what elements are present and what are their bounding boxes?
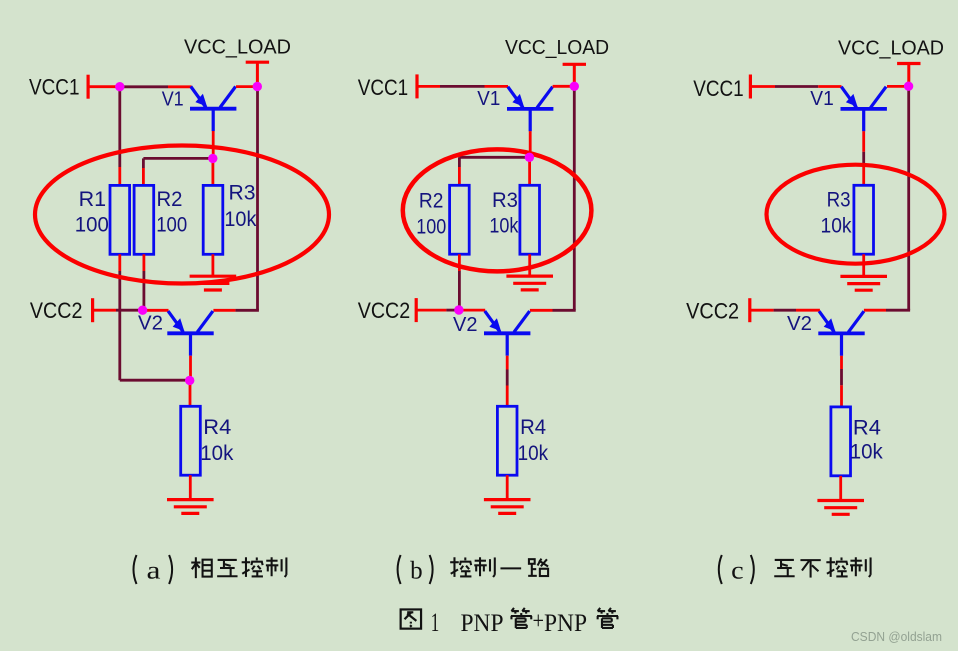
wire VCC1 to V1 (c) bbox=[775, 85, 818, 88]
wire R4 bottom pin (a) bbox=[189, 475, 192, 499]
caption (a) char zhi bbox=[266, 557, 287, 577]
wire V2 to R4 (c) bbox=[840, 369, 843, 385]
wire R4 bottom pin (c) bbox=[839, 476, 842, 501]
wire V2 base pin (c) bbox=[840, 356, 843, 369]
node VCC_LOAD junction (b) bbox=[570, 82, 579, 91]
wire V1 emitter pin (a) bbox=[168, 85, 192, 88]
value 100 of R2 (b) bbox=[416, 216, 446, 239]
figure caption plus sign bbox=[533, 608, 545, 635]
wire V2 base pin (b) bbox=[506, 356, 509, 370]
power tick VCC2 (a) bbox=[91, 298, 94, 322]
wire R2 down to VCC2 (a) bbox=[142, 271, 145, 308]
node VCC2 junction (a) bbox=[138, 306, 147, 315]
wire V2 collector pin (a) bbox=[213, 309, 235, 312]
power tick VCC1 (b) bbox=[415, 74, 418, 98]
svg-text:R4: R4 bbox=[520, 416, 546, 439]
caption (c) open paren bbox=[719, 555, 722, 584]
caption (b) letter b bbox=[410, 558, 423, 585]
wire R4 top pin (c) bbox=[840, 385, 843, 407]
figure caption number 1 bbox=[431, 608, 440, 637]
caption (a) close paren bbox=[169, 555, 172, 584]
wire R3 top pin (a) bbox=[211, 160, 214, 186]
caption (b) char yi bbox=[500, 567, 521, 569]
watermark CSDN @oldslam bbox=[851, 630, 942, 644]
wire R2 top pin (b) bbox=[458, 167, 461, 186]
figure caption char tu bbox=[401, 609, 421, 628]
resistor R2 (b) bbox=[450, 185, 470, 254]
node VCC_LOAD junction (a) bbox=[253, 82, 262, 91]
wire V1 base pin (a) bbox=[212, 131, 215, 155]
wire R3 bottom pin (b) bbox=[528, 254, 531, 276]
caption (b) close paren bbox=[430, 555, 433, 584]
svg-text:100: 100 bbox=[416, 216, 446, 239]
net label VCC1 (a) bbox=[29, 75, 80, 100]
label V2 (a) bbox=[138, 312, 163, 334]
svg-text:VCC1: VCC1 bbox=[29, 75, 80, 100]
power bar VCC_LOAD (b) bbox=[563, 64, 586, 84]
wire right rail (c) bbox=[907, 88, 910, 310]
resistor R4 (b) bbox=[497, 406, 517, 475]
node V2 base junction (a) bbox=[185, 376, 194, 385]
label V2 (b) bbox=[453, 314, 478, 336]
node V1 base junction (a) bbox=[208, 154, 217, 163]
wire R1 bottom pin (a) bbox=[118, 254, 121, 271]
svg-text:R3: R3 bbox=[229, 182, 256, 205]
resistor R2 (a) bbox=[134, 185, 154, 254]
power tick VCC1 (a) bbox=[86, 75, 89, 99]
wire V2 to R4 (b) bbox=[506, 370, 509, 386]
svg-text:VCC1: VCC1 bbox=[693, 76, 744, 101]
wire V1 collector pin (b) bbox=[553, 85, 571, 88]
power bar VCC_LOAD (a) bbox=[246, 62, 269, 84]
label R2 (a) bbox=[157, 188, 183, 211]
svg-text:10k: 10k bbox=[224, 208, 256, 231]
wire VCC2 to node (a) bbox=[116, 309, 140, 312]
wire R4 top pin (b) bbox=[506, 386, 509, 407]
wire down to R2 (b) bbox=[458, 157, 461, 167]
label R3 (c) bbox=[827, 189, 851, 212]
label R4 (b) bbox=[520, 416, 546, 439]
wire R1 to V2 emitter (a) bbox=[120, 379, 188, 382]
wire V2 collector pin (c) bbox=[864, 309, 886, 312]
svg-text:VCC1: VCC1 bbox=[358, 75, 409, 100]
wire right rail (b) bbox=[573, 88, 576, 310]
caption (a) char kong bbox=[242, 557, 263, 577]
power bar VCC_LOAD (c) bbox=[897, 64, 920, 85]
transistor V2 (c) bbox=[818, 311, 864, 356]
svg-text:b: b bbox=[410, 558, 423, 585]
transistor V2 (a) bbox=[167, 311, 213, 356]
wire rail to V2 (a) bbox=[235, 309, 259, 312]
wire R3 top pin (c) bbox=[862, 167, 865, 186]
label V1 (b) bbox=[477, 88, 500, 110]
value 10k of R3 (b) bbox=[489, 215, 518, 238]
caption (c) char kong bbox=[826, 557, 847, 577]
svg-text:R2: R2 bbox=[157, 188, 183, 211]
svg-text:10k: 10k bbox=[489, 215, 518, 238]
caption (a) char xiang bbox=[191, 557, 212, 578]
net label VCC_LOAD (c) bbox=[838, 37, 944, 59]
caption (c) char bu bbox=[800, 560, 820, 577]
svg-text:PNP: PNP bbox=[461, 610, 504, 637]
wire VCC1 pin (c) bbox=[750, 85, 775, 88]
wire VCC2 pin (b) bbox=[416, 309, 446, 312]
net label VCC_LOAD (a) bbox=[184, 37, 291, 59]
net label VCC2 (c) bbox=[686, 299, 739, 324]
transistor V2 (b) bbox=[484, 311, 530, 356]
ground under R3 (a) bbox=[190, 276, 237, 290]
wire V1 collector pin (c) bbox=[887, 85, 905, 88]
value 10k of R4 (a) bbox=[200, 442, 233, 465]
figure caption char guan 1 bbox=[511, 608, 532, 628]
svg-text:10k: 10k bbox=[518, 442, 549, 465]
transistor V1 (b) bbox=[507, 87, 553, 132]
net label VCC2 (b) bbox=[358, 298, 411, 323]
svg-text:CSDN @oldslam: CSDN @oldslam bbox=[851, 630, 942, 644]
wire V2 emitter pin (b) bbox=[462, 309, 486, 312]
svg-text:10k: 10k bbox=[821, 215, 852, 238]
caption (a) letter a bbox=[147, 558, 161, 585]
label R2 (b) bbox=[419, 189, 444, 212]
value 100 of R2 (a) bbox=[156, 214, 187, 237]
net label VCC_LOAD (b) bbox=[505, 37, 609, 59]
svg-text:VCC_LOAD: VCC_LOAD bbox=[505, 37, 609, 59]
svg-text:R4: R4 bbox=[853, 416, 881, 439]
transistor V1 (c) bbox=[841, 87, 887, 132]
wire VCC1 to V1 (b) bbox=[440, 85, 485, 88]
wire R4 top pin (a) bbox=[189, 382, 192, 406]
svg-text:V2: V2 bbox=[787, 313, 812, 335]
label R3 (a) bbox=[229, 182, 256, 205]
caption (a) char hu bbox=[217, 560, 237, 576]
svg-text:c: c bbox=[731, 558, 744, 585]
wire V2 collector pin (b) bbox=[530, 309, 553, 312]
svg-text:V1: V1 bbox=[810, 88, 834, 110]
wire VCC1 down to R1 (a) bbox=[118, 88, 121, 167]
node VCC2 junction (b) bbox=[454, 305, 463, 314]
wire R3 bottom pin (c) bbox=[862, 254, 865, 276]
label V1 (c) bbox=[810, 88, 834, 110]
caption (c) char zhi bbox=[850, 557, 871, 577]
wire R1 down (a) bbox=[118, 271, 121, 380]
value 10k of R4 (b) bbox=[518, 442, 549, 465]
figure caption PNP second bbox=[544, 610, 587, 637]
svg-text:10k: 10k bbox=[200, 442, 233, 465]
svg-text:V2: V2 bbox=[453, 314, 478, 336]
figure caption PNP first bbox=[461, 610, 504, 637]
svg-text:VCC_LOAD: VCC_LOAD bbox=[184, 37, 291, 59]
svg-text:R4: R4 bbox=[203, 416, 231, 439]
resistor R1 (a) bbox=[110, 185, 130, 254]
ground under R3 (b) bbox=[506, 276, 553, 290]
svg-text:10k: 10k bbox=[850, 441, 883, 464]
svg-text:R3: R3 bbox=[827, 189, 851, 212]
node V1 base junction (b) bbox=[525, 153, 534, 162]
resistor R4 (c) bbox=[831, 407, 851, 476]
value 100 of R1 (a) bbox=[75, 214, 109, 237]
wire V1 base pin (b) bbox=[529, 131, 532, 154]
highlight ellipse (c) bbox=[767, 165, 945, 264]
resistor R4 (a) bbox=[181, 406, 201, 475]
svg-text:1: 1 bbox=[431, 608, 440, 637]
ground under R4 (a) bbox=[167, 500, 214, 514]
wire V2 emitter pin (a) bbox=[145, 309, 169, 312]
net label VCC2 (a) bbox=[30, 298, 83, 323]
svg-text:V1: V1 bbox=[162, 88, 184, 110]
wire V1 base to R3 (c) bbox=[862, 152, 865, 167]
wire V2 emitter pin (c) bbox=[796, 309, 820, 312]
net label VCC1 (c) bbox=[693, 76, 744, 101]
power tick VCC2 (c) bbox=[748, 298, 751, 322]
wire R3 bottom pin (a) bbox=[211, 254, 214, 276]
wire R2 bottom pin (a) bbox=[142, 254, 145, 271]
svg-text:VCC2: VCC2 bbox=[30, 298, 83, 323]
caption (b) char kong bbox=[450, 557, 471, 577]
net label VCC1 (b) bbox=[358, 75, 409, 100]
svg-text:VCC2: VCC2 bbox=[358, 298, 411, 323]
wire VCC2 pin (a) bbox=[93, 309, 116, 312]
wire VCC1 to V1 (a) bbox=[122, 85, 168, 88]
power tick VCC1 (c) bbox=[749, 75, 752, 99]
wire R2 down to VCC2 (b) bbox=[458, 271, 461, 307]
caption (a) open paren bbox=[134, 555, 137, 584]
svg-text:V1: V1 bbox=[477, 88, 500, 110]
ground under R4 (b) bbox=[484, 500, 531, 514]
wire base node to R2 (a) bbox=[143, 157, 210, 160]
wire rail to V2 (c) bbox=[886, 309, 910, 312]
wire down to R2 (a) bbox=[142, 158, 145, 168]
svg-text:R3: R3 bbox=[492, 189, 518, 212]
svg-text:a: a bbox=[147, 558, 161, 585]
svg-text:V2: V2 bbox=[138, 312, 163, 334]
label R4 (a) bbox=[203, 416, 231, 439]
label R3 (b) bbox=[492, 189, 518, 212]
wire V2 base pin (a) bbox=[189, 356, 192, 378]
svg-text:+: + bbox=[533, 608, 545, 635]
label R4 (c) bbox=[853, 416, 881, 439]
svg-text:R1: R1 bbox=[79, 188, 107, 211]
wire VCC2 to node (b) bbox=[446, 309, 456, 312]
label V1 (a) bbox=[162, 88, 184, 110]
caption (c) letter c bbox=[731, 558, 744, 585]
wire V1 collector pin (a) bbox=[236, 85, 253, 88]
svg-text:PNP: PNP bbox=[544, 610, 587, 637]
wire VCC2 to V2 (c) bbox=[774, 309, 796, 312]
svg-text:100: 100 bbox=[75, 214, 109, 237]
wire VCC2 pin (c) bbox=[750, 309, 774, 312]
value 10k of R3 (c) bbox=[821, 215, 852, 238]
wire right rail (a) bbox=[256, 87, 259, 310]
svg-text:VCC_LOAD: VCC_LOAD bbox=[838, 37, 944, 59]
wire V1 emitter pin (b) bbox=[485, 85, 509, 88]
svg-text:R2: R2 bbox=[419, 189, 444, 212]
ground under R3 (c) bbox=[840, 276, 887, 290]
wire R2 bottom pin (b) bbox=[458, 254, 461, 271]
ground under R4 (c) bbox=[817, 501, 864, 515]
highlight ellipse (a) bbox=[35, 146, 329, 284]
caption (b) open paren bbox=[398, 555, 401, 584]
figure caption char guan 2 bbox=[597, 608, 618, 628]
resistor R3 (c) bbox=[854, 185, 874, 254]
wire R4 bottom pin (b) bbox=[506, 475, 509, 499]
power tick VCC2 (b) bbox=[415, 298, 418, 322]
wire V1 base pin (c) bbox=[862, 131, 865, 152]
transistor V1 (a) bbox=[190, 87, 236, 132]
value 10k of R3 (a) bbox=[224, 208, 256, 231]
wire VCC1 pin (a) bbox=[88, 85, 117, 88]
node VCC1 junction (a) bbox=[115, 82, 124, 91]
wire V1 emitter pin (c) bbox=[818, 85, 841, 88]
resistor R3 (b) bbox=[520, 185, 540, 254]
resistor R3 (a) bbox=[203, 185, 223, 254]
wire rail to V2 (b) bbox=[553, 309, 576, 312]
highlight ellipse (b) bbox=[403, 149, 592, 271]
value 10k of R4 (c) bbox=[850, 441, 883, 464]
wire R3 top pin (b) bbox=[528, 159, 531, 186]
caption (b) char zhi bbox=[474, 557, 495, 577]
wire VCC1 pin (b) bbox=[417, 85, 440, 88]
svg-text:VCC2: VCC2 bbox=[686, 299, 739, 324]
label R1 (a) bbox=[79, 188, 107, 211]
wire R1 top pin (a) bbox=[118, 167, 121, 186]
wire R2 top pin (a) bbox=[142, 168, 145, 186]
svg-text:100: 100 bbox=[156, 214, 187, 237]
node VCC_LOAD junction (c) bbox=[904, 82, 913, 91]
label V2 (c) bbox=[787, 313, 812, 335]
wire base node to R2 (b) bbox=[459, 156, 527, 159]
caption (c) close paren bbox=[751, 555, 754, 584]
caption (c) char hu bbox=[774, 560, 794, 576]
caption (b) char lu bbox=[528, 559, 548, 576]
